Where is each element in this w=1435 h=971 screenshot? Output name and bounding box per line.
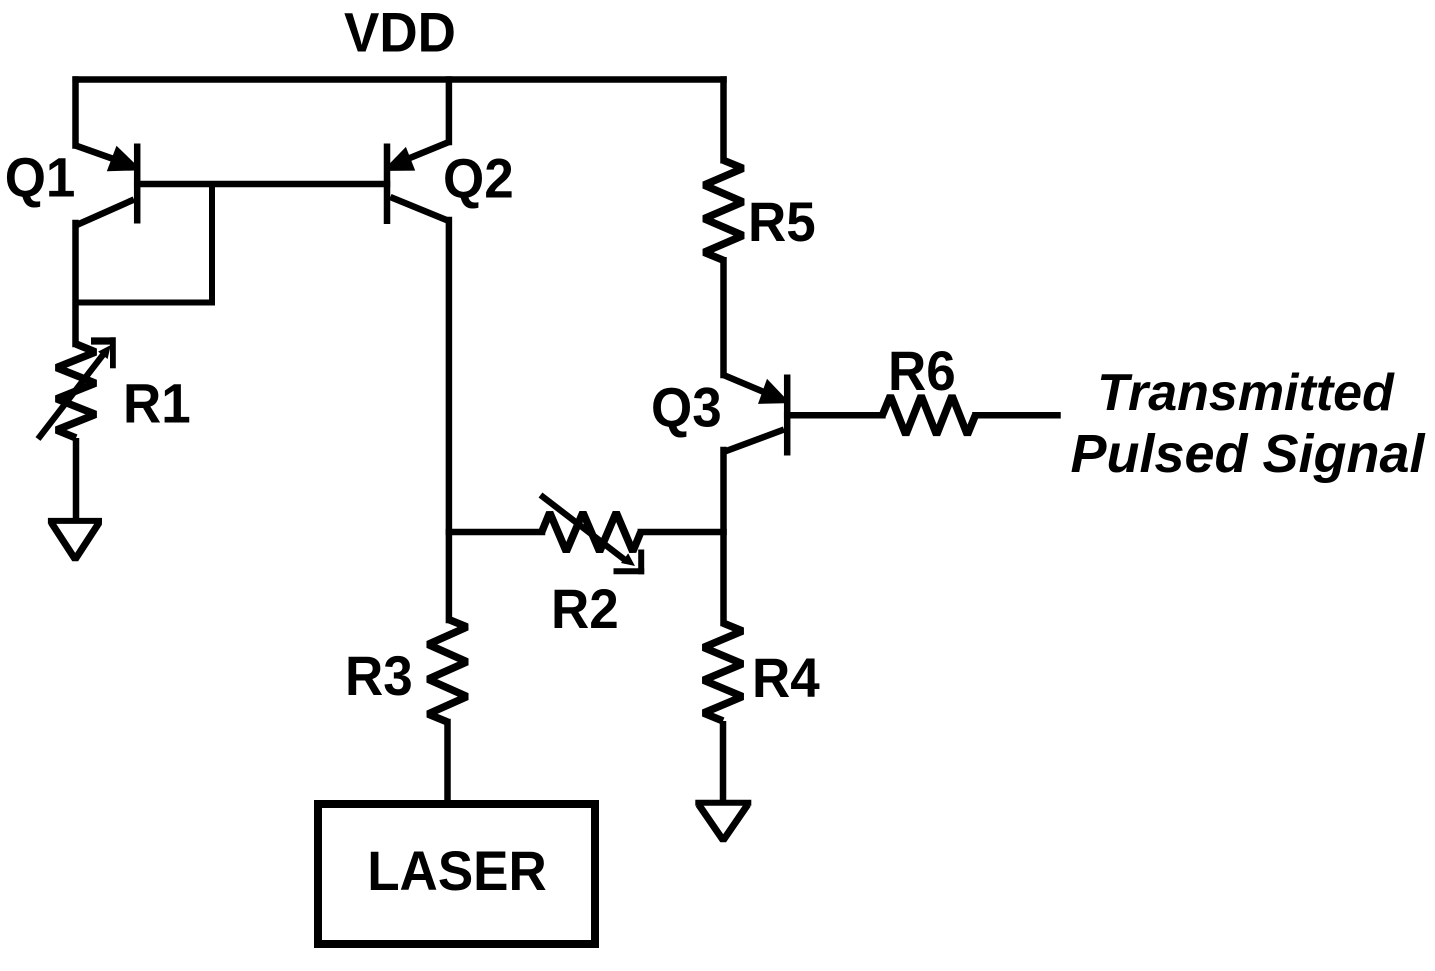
ground symbol near R4 (695, 800, 751, 806)
transistor Q2 (387, 142, 449, 224)
wire Q2 collector down (446, 220, 453, 620)
wire VDD to Q2 emitter (446, 80, 453, 143)
svg-text:Pulsed Signal: Pulsed Signal (1070, 424, 1425, 484)
svg-text:Q2: Q2 (443, 147, 514, 209)
svg-text:LASER: LASER (367, 840, 547, 902)
wire R1 to ground (73, 438, 80, 520)
svg-text:Q3: Q3 (651, 376, 722, 438)
resistor R5 (704, 160, 743, 260)
resistor R4 (704, 623, 743, 721)
wire R3 to LASER (444, 722, 451, 804)
svg-text:R6: R6 (888, 340, 956, 402)
wire R2 to Q3 collector node (641, 529, 724, 536)
resistor R1 (variable) (38, 340, 116, 439)
wire Q1 base to Q2 base (137, 181, 387, 188)
wire Q3 collector to R4 (720, 450, 727, 623)
wire R5 to Q3 emitter (720, 260, 727, 375)
svg-text:R5: R5 (748, 191, 816, 253)
wire Q2 collector to R2 (449, 529, 542, 536)
transistor Q3 (724, 375, 788, 456)
svg-text:Transmitted: Transmitted (1097, 364, 1395, 422)
wire VDD to R5 (720, 80, 727, 161)
wire Q3 base to R6 (787, 412, 882, 419)
LASER box (318, 804, 595, 944)
resistor R2 (variable) (541, 495, 645, 574)
wire Q1 collector down (72, 223, 79, 344)
wire base feedback vertical (209, 184, 215, 303)
wire VDD rail (76, 76, 724, 83)
resistor R3 (428, 619, 467, 722)
svg-text:VDD: VDD (344, 1, 456, 63)
svg-text:Q1: Q1 (5, 146, 76, 208)
svg-text:R1: R1 (123, 372, 191, 434)
svg-text:R3: R3 (345, 645, 413, 707)
ground symbol near R1 (48, 518, 102, 524)
wire base feedback horizontal (76, 300, 213, 306)
wire R6 to output (975, 412, 1057, 419)
svg-text:R2: R2 (551, 578, 619, 640)
wire R4 to ground (720, 721, 727, 802)
svg-text:R4: R4 (752, 647, 820, 709)
resistor R6 (882, 396, 975, 435)
transistor Q1 (76, 144, 138, 226)
wire VDD to Q1 emitter (72, 80, 79, 146)
